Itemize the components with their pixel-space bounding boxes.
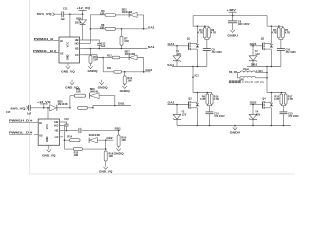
svg-text:SA1: SA1 xyxy=(148,45,155,49)
sheet border left xyxy=(28,0,30,174)
svg-text:10uH: 10uH xyxy=(243,68,249,71)
svg-text:GNDQ: GNDQ xyxy=(98,86,108,90)
wire GB1 row xyxy=(93,105,131,107)
junction xyxy=(114,105,116,107)
junction xyxy=(234,125,236,127)
svg-text:GB2: GB2 xyxy=(250,101,257,105)
svg-text:R11: R11 xyxy=(107,67,112,70)
svg-text:1uF: 1uF xyxy=(27,112,32,115)
resistor RP2 (12V row) xyxy=(78,106,88,109)
inductor L401 choke winding 1 xyxy=(240,71,256,73)
junction GA1 split xyxy=(90,28,92,30)
junction xyxy=(271,92,273,94)
wire HO riser xyxy=(63,126,64,150)
svg-text:GB1: GB1 xyxy=(118,102,125,106)
drain rail Q3 xyxy=(193,92,212,94)
svg-text:GND_VQ: GND_VQ xyxy=(42,153,55,157)
sheet border bottom xyxy=(29,173,295,175)
wire xyxy=(137,15,144,29)
snubber resistor R7 4.7R xyxy=(282,26,284,27)
svg-text:GB1: GB1 xyxy=(250,42,257,46)
junction xyxy=(209,125,211,127)
junction xyxy=(143,28,145,30)
svg-text:GA1: GA1 xyxy=(168,42,175,46)
body diode Q4 xyxy=(270,104,273,107)
svg-text:U5: U5 xyxy=(39,133,43,137)
bus rail +48V xyxy=(193,15,267,17)
wire HO to gate resistor pair xyxy=(83,43,90,45)
svg-text:GND_VQ: GND_VQ xyxy=(61,69,74,73)
zener Y1 12V gate protect xyxy=(176,46,178,56)
svg-text:10K: 10K xyxy=(121,139,126,142)
junction xyxy=(66,130,68,132)
junction xyxy=(266,77,268,79)
wire xyxy=(88,107,93,109)
snubber resistor R17 4.7R xyxy=(285,93,287,94)
snubber resistor R9 4.7R xyxy=(206,93,208,94)
ground GNDQ (top driver) xyxy=(88,66,92,69)
ground GND_VQ (below U2) xyxy=(66,66,70,69)
junction VCC tap xyxy=(69,13,71,15)
inductor L401 choke winding 2 xyxy=(240,76,256,78)
junction xyxy=(197,125,199,127)
svg-text:B8_2R: B8_2R xyxy=(229,71,237,74)
junction xyxy=(90,48,92,50)
wire R8 row xyxy=(90,28,105,30)
svg-text:472 100V: 472 100V xyxy=(211,51,222,54)
svg-text:1uF: 1uF xyxy=(61,18,66,21)
svg-text:10R: 10R xyxy=(100,12,105,15)
wire xyxy=(55,13,62,15)
drain rail Q4 xyxy=(267,92,286,94)
junction xyxy=(124,71,126,73)
svg-text:GND: GND xyxy=(66,54,70,60)
junction xyxy=(92,107,94,109)
junction xyxy=(143,71,145,73)
svg-text:PWM1L_D #: PWM1L_D # xyxy=(9,131,33,135)
junction xyxy=(192,76,194,78)
wire xyxy=(97,139,113,141)
svg-text:472 100V: 472 100V xyxy=(214,115,225,118)
svg-text:10R: 10R xyxy=(76,90,81,93)
snubber cap C10 472 100V xyxy=(277,49,285,51)
svg-text:472 100V: 472 100V xyxy=(285,51,296,54)
wire jog xyxy=(92,106,94,108)
ground GNDQ (mid) xyxy=(101,80,103,82)
svg-text:GND: GND xyxy=(45,136,49,142)
junction xyxy=(118,130,120,132)
wire U5 VCC feed xyxy=(47,108,49,119)
wire xyxy=(83,140,106,149)
svg-text:Q3: Q3 xyxy=(188,97,192,100)
resistor R10 10R pulldown to GNDQ xyxy=(90,49,92,56)
svg-text:1N4148: 1N4148 xyxy=(122,11,133,14)
HS rail wire to SA1 xyxy=(83,48,147,50)
snubber join xyxy=(279,38,283,39)
snubber cap C14 472 100V xyxy=(206,112,214,114)
svg-text:12V: 12V xyxy=(177,53,182,56)
svg-text:+12_VQ: +12_VQ xyxy=(37,100,51,104)
ground GNDU (at C6) xyxy=(230,30,234,33)
junction xyxy=(121,48,123,50)
wire rail drop Q1 xyxy=(193,16,209,27)
junction xyxy=(43,107,45,109)
svg-text:1N4148: 1N4148 xyxy=(125,53,136,56)
junction GA2 split xyxy=(102,57,104,59)
IC U5 gate driver xyxy=(38,119,59,145)
svg-text:PWM1H_D #: PWM1H_D # xyxy=(9,119,33,123)
svg-text:GNDQ: GNDQ xyxy=(120,89,130,93)
junction xyxy=(207,92,209,94)
svg-text:GND_VQ: GND_VQ xyxy=(99,170,112,174)
svg-text:12V: 12V xyxy=(182,114,187,117)
wire phase A down xyxy=(192,67,194,93)
svg-text:12V: 12V xyxy=(256,114,261,117)
junction xyxy=(99,48,101,50)
junction xyxy=(271,66,273,68)
svg-text:2C1: 2C1 xyxy=(194,75,199,78)
ground GNDU (rail) xyxy=(234,126,236,128)
svg-text:1N4148: 1N4148 xyxy=(88,134,100,137)
svg-text:GA1: GA1 xyxy=(148,25,155,29)
wire xyxy=(137,58,144,72)
ground GND_VQ (mid) xyxy=(71,80,73,82)
junction xyxy=(64,139,66,141)
svg-text:472 100V: 472 100V xyxy=(288,115,299,118)
svg-text:3.15mH /3P 2A: 3.15mH /3P 2A xyxy=(242,81,265,84)
junction xyxy=(283,125,285,127)
wire rail drop Q2 xyxy=(267,16,283,27)
choke chinese note xyxy=(229,80,232,83)
junction xyxy=(252,125,254,127)
svg-text:GNDQ: GNDQ xyxy=(114,151,124,155)
svg-text:4.7R: 4.7R xyxy=(274,98,279,101)
junction xyxy=(204,25,206,27)
wire xyxy=(256,77,267,79)
svg-text:LO: LO xyxy=(75,53,79,57)
junction xyxy=(266,66,268,68)
svg-text:GB2: GB2 xyxy=(106,136,113,140)
wire xyxy=(65,139,70,141)
svg-text:HS: HS xyxy=(75,47,79,51)
svg-text:PWM2H_B: PWM2H_B xyxy=(34,37,53,41)
snubber cap C15 472 100V xyxy=(280,112,288,114)
svg-text:HB: HB xyxy=(54,120,58,124)
resistor R19 10K xyxy=(118,131,120,135)
ground GNDQ (bottom) xyxy=(116,148,120,151)
svg-text:SS14: SS14 xyxy=(75,21,82,24)
svg-text:10K: 10K xyxy=(109,155,114,158)
snubber resistor R5 4.7R xyxy=(278,26,280,27)
svg-text:C16: C16 xyxy=(64,118,69,121)
wire R11 row xyxy=(103,58,114,72)
wire xyxy=(64,13,83,15)
svg-text:4.7R: 4.7R xyxy=(211,32,216,35)
svg-text:BD4: BD4 xyxy=(76,18,82,21)
svg-text:SB1: SB1 xyxy=(115,127,122,131)
IC U2 gate driver xyxy=(59,37,80,63)
svg-text:4.7R: 4.7R xyxy=(288,98,293,101)
body diode Q2 xyxy=(270,45,273,48)
pin stubs U2 xyxy=(55,40,59,42)
wire xyxy=(120,57,129,59)
resistor R18 10K pulldown xyxy=(105,149,107,151)
svg-text:R14: R14 xyxy=(67,135,72,138)
svg-text:6V0_VQ: 6V0_VQ xyxy=(11,106,27,110)
capacitor C11 1uF xyxy=(62,11,64,17)
svg-text:HO: HO xyxy=(75,42,79,46)
svg-text:HI: HI xyxy=(39,121,42,125)
svg-text:R12: R12 xyxy=(107,54,112,57)
junction xyxy=(47,107,49,109)
wire xyxy=(116,14,129,16)
svg-text:1N4148: 1N4148 xyxy=(58,103,68,106)
capacitor C15 1uF xyxy=(28,105,30,111)
wire LO to GA2 resistor pair xyxy=(83,55,103,58)
snubber resistor R4 4.7R xyxy=(204,26,206,27)
svg-text:10R: 10R xyxy=(74,154,79,157)
bootstrap cap C12 1uF xyxy=(83,40,99,43)
junction xyxy=(105,148,107,150)
junction xyxy=(192,66,194,68)
junction xyxy=(197,66,199,68)
junction xyxy=(197,92,199,94)
junction xyxy=(278,25,280,27)
svg-text:10R: 10R xyxy=(93,59,98,62)
svg-text:1N4148: 1N4148 xyxy=(90,90,99,93)
wire xyxy=(116,28,148,30)
snubber join xyxy=(281,104,285,105)
body diode Q1 xyxy=(196,45,199,48)
wire xyxy=(122,71,151,73)
svg-text:+12_VQ: +12_VQ xyxy=(77,6,91,10)
svg-text:1uF: 1uF xyxy=(101,45,106,48)
junction xyxy=(232,15,234,17)
svg-text:4.7R: 4.7R xyxy=(198,32,203,35)
resistor R7 10K pulldown xyxy=(121,29,123,36)
svg-text:Q4: Q4 xyxy=(262,97,266,100)
capacitor C17 (on HS rail) xyxy=(79,128,81,133)
svg-text:SB1: SB1 xyxy=(251,62,258,66)
phase node SA1 row xyxy=(172,66,207,68)
svg-text:GA2: GA2 xyxy=(145,68,152,72)
svg-text:GNDU: GNDU xyxy=(227,33,238,37)
body diode Q3 xyxy=(196,104,199,107)
svg-text:GA2: GA2 xyxy=(168,101,175,105)
ground GNDQ 2 xyxy=(123,86,127,89)
svg-text:330 100V: 330 100V xyxy=(238,23,250,26)
svg-text:GND_VQ: GND_VQ xyxy=(65,86,78,90)
svg-text:VCC: VCC xyxy=(45,124,49,130)
wire to U2 VCC pin xyxy=(69,14,71,37)
diode BD4 SS14 bootstrap xyxy=(82,14,84,20)
wire xyxy=(103,57,112,59)
svg-text:PWM1L_B #: PWM1L_B # xyxy=(33,49,57,53)
svg-text:HB: HB xyxy=(75,38,79,42)
svg-text:10K: 10K xyxy=(124,40,129,43)
snubber join xyxy=(205,38,209,39)
junction xyxy=(266,72,268,74)
capacitor C6 330uF 100V xyxy=(232,16,234,21)
svg-text:GNDU: GNDU xyxy=(230,131,241,135)
svg-text:VCC: VCC xyxy=(66,42,70,48)
ground GND_VQ (bottom right) xyxy=(104,167,108,170)
snubber cap C9 472 100V xyxy=(203,49,211,51)
junction xyxy=(105,139,107,141)
ground GND_VQ (below U5) xyxy=(47,150,51,153)
svg-text:4.7R: 4.7R xyxy=(214,98,219,101)
svg-text:4.7R: 4.7R xyxy=(272,32,277,35)
svg-text:12V: 12V xyxy=(255,53,260,56)
wire phase B down xyxy=(266,67,268,93)
svg-text:4.7R: 4.7R xyxy=(200,98,205,101)
junction xyxy=(271,25,273,27)
svg-text:HO: HO xyxy=(54,124,58,128)
svg-text:+48V: +48V xyxy=(226,8,236,12)
wire to GB1 junction xyxy=(99,96,115,106)
zener Y4 12V gate protect xyxy=(252,105,254,115)
zener Y2 12V gate protect xyxy=(252,46,254,56)
svg-text:HI: HI xyxy=(60,39,63,43)
svg-text:6V0_VQ: 6V0_VQ xyxy=(37,12,53,16)
svg-text:HS: HS xyxy=(55,129,59,133)
svg-text:U2: U2 xyxy=(60,51,64,55)
phase node SB1 row xyxy=(247,66,281,68)
snubber resistor R6 4.7R xyxy=(208,26,210,27)
svg-text:4.7R: 4.7R xyxy=(285,32,290,35)
zener Y3 12V gate protect xyxy=(176,105,178,115)
resistor R15 10R (row2) xyxy=(65,148,74,150)
junction xyxy=(271,125,273,127)
pin stubs U5 xyxy=(34,121,38,123)
svg-text:10R: 10R xyxy=(100,26,105,29)
svg-text:LO: LO xyxy=(55,135,59,139)
wire xyxy=(256,72,267,74)
wire xyxy=(31,107,50,109)
junction xyxy=(197,25,199,27)
junction xyxy=(281,92,283,94)
junction xyxy=(121,28,123,30)
wire R11b row riser xyxy=(69,96,71,108)
snubber resistor R10 4.7R xyxy=(280,93,282,94)
junction bootstrap xyxy=(82,13,84,15)
ground rail (bridge) xyxy=(177,125,291,127)
snubber join xyxy=(207,104,211,105)
svg-text:C11: C11 xyxy=(63,6,68,10)
svg-text:SA1: SA1 xyxy=(167,63,174,67)
svg-text:GNDQ: GNDQ xyxy=(88,69,98,73)
choke left tie xyxy=(237,73,240,78)
wire xyxy=(57,107,70,109)
resistor R13 10K pulldown xyxy=(124,72,126,76)
svg-text:10K: 10K xyxy=(127,80,132,83)
svg-text:C15: C15 xyxy=(6,111,11,114)
snubber resistor R16 4.7R xyxy=(211,93,213,94)
junction xyxy=(69,107,71,109)
HS rail to SB1 xyxy=(63,130,78,132)
